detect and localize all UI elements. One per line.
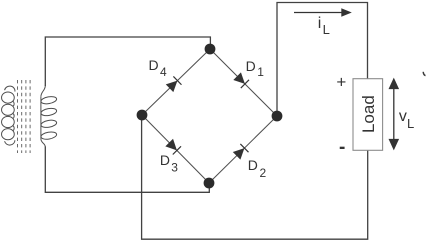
svg-text:D: D [160,152,170,168]
diode D1 [233,72,249,88]
svg-text:L: L [407,116,414,131]
voltage arrow vL (double headed) [389,78,400,151]
diode D2 [233,144,249,160]
wire: bridge edge left-top (anode path of D4) [142,49,210,115]
wire: bridge edge left-bottom (path of D3) [142,115,209,183]
current arrow iL [294,8,352,17]
svg-text:-: - [339,137,345,158]
svg-text:i: i [318,15,322,32]
wire: left node down and along bottom rail to load bottom [142,117,368,239]
svg-text:L: L [323,22,330,37]
load resistor [353,79,383,151]
transformer T1 primary winding [2,86,15,145]
svg-text:2: 2 [260,166,267,180]
diode D4 [166,76,182,92]
transformer T1 core [18,80,31,153]
svg-text:D: D [246,58,256,74]
svg-text:1: 1 [257,65,264,79]
diode D3 [165,139,181,155]
svg-text:4: 4 [160,65,167,79]
svg-text:D: D [248,157,258,173]
wire: bridge edge top-right (path of D1) [210,49,277,116]
node: bridge bottom junction [204,178,215,189]
wire: secondary top lead to bridge top node [45,37,210,86]
svg-text:+: + [336,73,346,92]
svg-text:Load: Load [359,95,378,133]
wire: right node up and along top rail to load top [277,3,368,115]
stray mark top-right [423,72,425,76]
svg-text:v: v [399,108,407,125]
transformer T1 secondary winding [40,86,57,148]
node: bridge left junction [137,110,148,121]
svg-text:D: D [149,57,159,73]
node: bridge right junction [272,111,283,122]
node: bridge top junction [205,44,216,55]
wire: secondary bottom lead to bridge bottom node [45,147,209,193]
wire: bridge edge bottom-right (path of D2) [209,116,277,183]
svg-text:3: 3 [171,160,178,174]
